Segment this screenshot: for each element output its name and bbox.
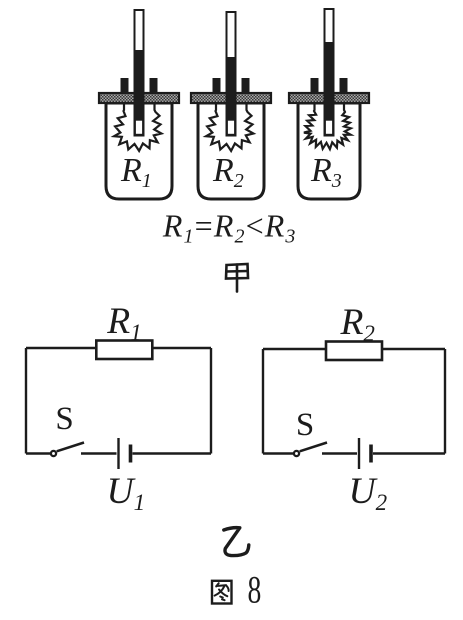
- wire top side: [26, 347, 211, 349]
- wire switch to battery: [81, 452, 117, 454]
- thermometer 1 bulb outline: [135, 120, 144, 136]
- thermometer 3 mercury column: [324, 42, 335, 120]
- switch S blade: [300, 443, 327, 452]
- thermometer 2 bulb outline: [227, 120, 236, 136]
- calorimeter vessel R3: [298, 103, 360, 199]
- battery U2 long plate: [358, 438, 360, 469]
- thermometer 2 mercury column: [226, 57, 237, 120]
- svg-text:S: S: [296, 407, 314, 443]
- caption 甲 (jia, diagram A): [226, 264, 248, 292]
- heating resistor R3 coil: [304, 103, 351, 149]
- battery U2 short plate: [369, 445, 373, 463]
- lid 2 (stippled cover): [191, 93, 271, 103]
- wire left side: [25, 348, 27, 454]
- binding post 3 right: [340, 78, 348, 94]
- wire top side: [263, 348, 445, 350]
- switch S pivot circle: [51, 451, 56, 456]
- thermometer 1 mercury column: [134, 50, 145, 120]
- binding post 2 left: [213, 78, 221, 94]
- thermometer 3 tube: [325, 9, 334, 136]
- battery U1 short plate: [129, 445, 133, 463]
- lid 3 (stippled cover): [289, 93, 369, 103]
- switch S blade: [57, 443, 84, 452]
- caption 图 (figure): [212, 581, 232, 604]
- svg-text:R1=R2<R3: R1=R2<R3: [162, 208, 297, 248]
- svg-text:8: 8: [248, 569, 262, 612]
- heating resistor R2 coil: [206, 103, 253, 151]
- wire battery to bottom-right corner: [373, 452, 445, 454]
- heating resistor R1 coil: [114, 103, 161, 151]
- thermometer 3 bulb outline: [325, 120, 334, 136]
- battery U1 long plate: [117, 438, 119, 469]
- binding post 1 right: [150, 78, 158, 94]
- svg-text:S: S: [55, 401, 73, 437]
- caption 乙 (yi, diagram B): [224, 528, 249, 556]
- switch S pivot circle: [294, 451, 299, 456]
- wire bottom-left to switch: [26, 452, 51, 454]
- wire left side: [262, 349, 264, 454]
- wire bottom-left to switch: [263, 452, 294, 454]
- calorimeter vessel R2: [198, 103, 264, 199]
- wire right side: [444, 349, 446, 454]
- wire right side: [210, 348, 212, 454]
- binding post 2 right: [242, 78, 250, 94]
- binding post 3 left: [311, 78, 319, 94]
- wire switch to battery: [322, 452, 357, 454]
- resistor R1 box: [96, 341, 152, 360]
- thermometer 2 tube: [227, 12, 236, 136]
- wire battery to bottom-right corner: [133, 452, 212, 454]
- calorimeter vessel R1: [106, 103, 172, 199]
- lid 1 (stippled cover): [99, 93, 179, 103]
- caption figure number 8: [248, 569, 262, 612]
- thermometer 1 tube: [135, 10, 144, 136]
- resistor R2 box: [326, 342, 382, 361]
- binding post 1 left: [121, 78, 129, 94]
